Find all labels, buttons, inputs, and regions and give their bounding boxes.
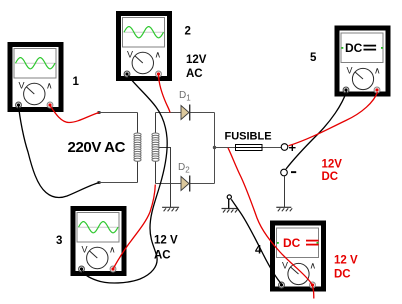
wire red lead meter5 to plus terminal: [289, 92, 378, 146]
multimeter 4 (DC): [270, 221, 326, 292]
wire D1 cathode to right bus: [190, 112, 215, 114]
transformer primary winding: [134, 133, 141, 136]
svg-text:∧: ∧: [46, 81, 53, 91]
svg-text:+: +: [289, 140, 297, 155]
svg-text:∧: ∧: [374, 66, 381, 76]
wire black lead meter5 to minus terminal: [286, 92, 347, 170]
svg-text:V: V: [82, 245, 88, 255]
node rectifier output: [213, 146, 216, 149]
wire primary bottom (220V loop): [99, 182, 138, 184]
- output terminal: [281, 169, 288, 176]
svg-text:DC: DC: [345, 41, 363, 55]
svg-text:5: 5: [310, 52, 317, 64]
svg-text:FUSIBLE: FUSIBLE: [225, 131, 272, 143]
wire secondary top to D1 anode: [155, 113, 157, 135]
svg-text:2: 2: [185, 26, 191, 38]
svg-text:V: V: [282, 261, 288, 271]
wire black lead meter2 to meter3 black: [82, 76, 168, 284]
svg-text:12V: 12V: [186, 54, 207, 66]
node top-left of primary: [98, 111, 101, 114]
transformer secondary winding: [152, 133, 159, 136]
multimeter 5 (DC): [335, 26, 391, 97]
wire black lead meter4 to ground probe: [231, 199, 282, 284]
svg-text:DC: DC: [334, 269, 351, 281]
svg-text:DC: DC: [322, 171, 339, 183]
oscilloscope meter 2: [116, 11, 172, 81]
fuse (fusible): [236, 145, 263, 151]
+ output terminal: [281, 144, 288, 151]
svg-text:AC: AC: [154, 250, 171, 262]
svg-text:12 V: 12 V: [154, 235, 178, 247]
wire red lead meter2 to secondary top: [159, 76, 171, 113]
svg-text:220V AC: 220V AC: [68, 139, 126, 156]
svg-text:1: 1: [73, 76, 80, 88]
svg-text:3: 3: [56, 235, 62, 247]
node bottom-left of primary: [98, 181, 101, 184]
wire black lead meter1 to primary bottom: [19, 106, 100, 198]
wire secondary bottom to D2 anode: [155, 160, 157, 184]
wire red lead meter3 to secondary bottom: [114, 185, 156, 269]
wire red lead meter4 tapped at fuse wire: [228, 148, 314, 299]
wire red lead meter1 to primary top: [50, 106, 99, 123]
diode D1: [181, 106, 189, 120]
ground (minus terminal): [276, 206, 291, 208]
svg-text:12V: 12V: [322, 159, 343, 171]
svg-text:∧: ∧: [155, 50, 162, 60]
wire - terminal to ground: [284, 176, 286, 207]
svg-text:∧: ∧: [310, 261, 317, 271]
svg-text:AC: AC: [186, 68, 203, 80]
svg-text:12 V: 12 V: [334, 255, 358, 267]
wire primary top (220V loop): [99, 112, 138, 114]
diode D2: [181, 177, 189, 191]
ground (center tap): [162, 206, 179, 208]
svg-text:V: V: [347, 66, 353, 76]
ground probe circle: [228, 198, 230, 209]
oscilloscope meter 3: [71, 206, 127, 276]
wire right bus (rectifier output): [214, 113, 216, 184]
wire output to + terminal through fuse: [215, 147, 282, 149]
svg-text:V: V: [127, 50, 133, 60]
svg-text:4: 4: [255, 245, 262, 257]
ground (probe point): [222, 208, 238, 210]
svg-text:∧: ∧: [109, 245, 116, 255]
svg-text:V: V: [19, 81, 25, 91]
wire D2 cathode to right bus: [190, 183, 215, 185]
svg-text:DC: DC: [283, 236, 301, 250]
oscilloscope meter 1: [8, 42, 64, 112]
wire center tap to ground: [157, 148, 171, 208]
